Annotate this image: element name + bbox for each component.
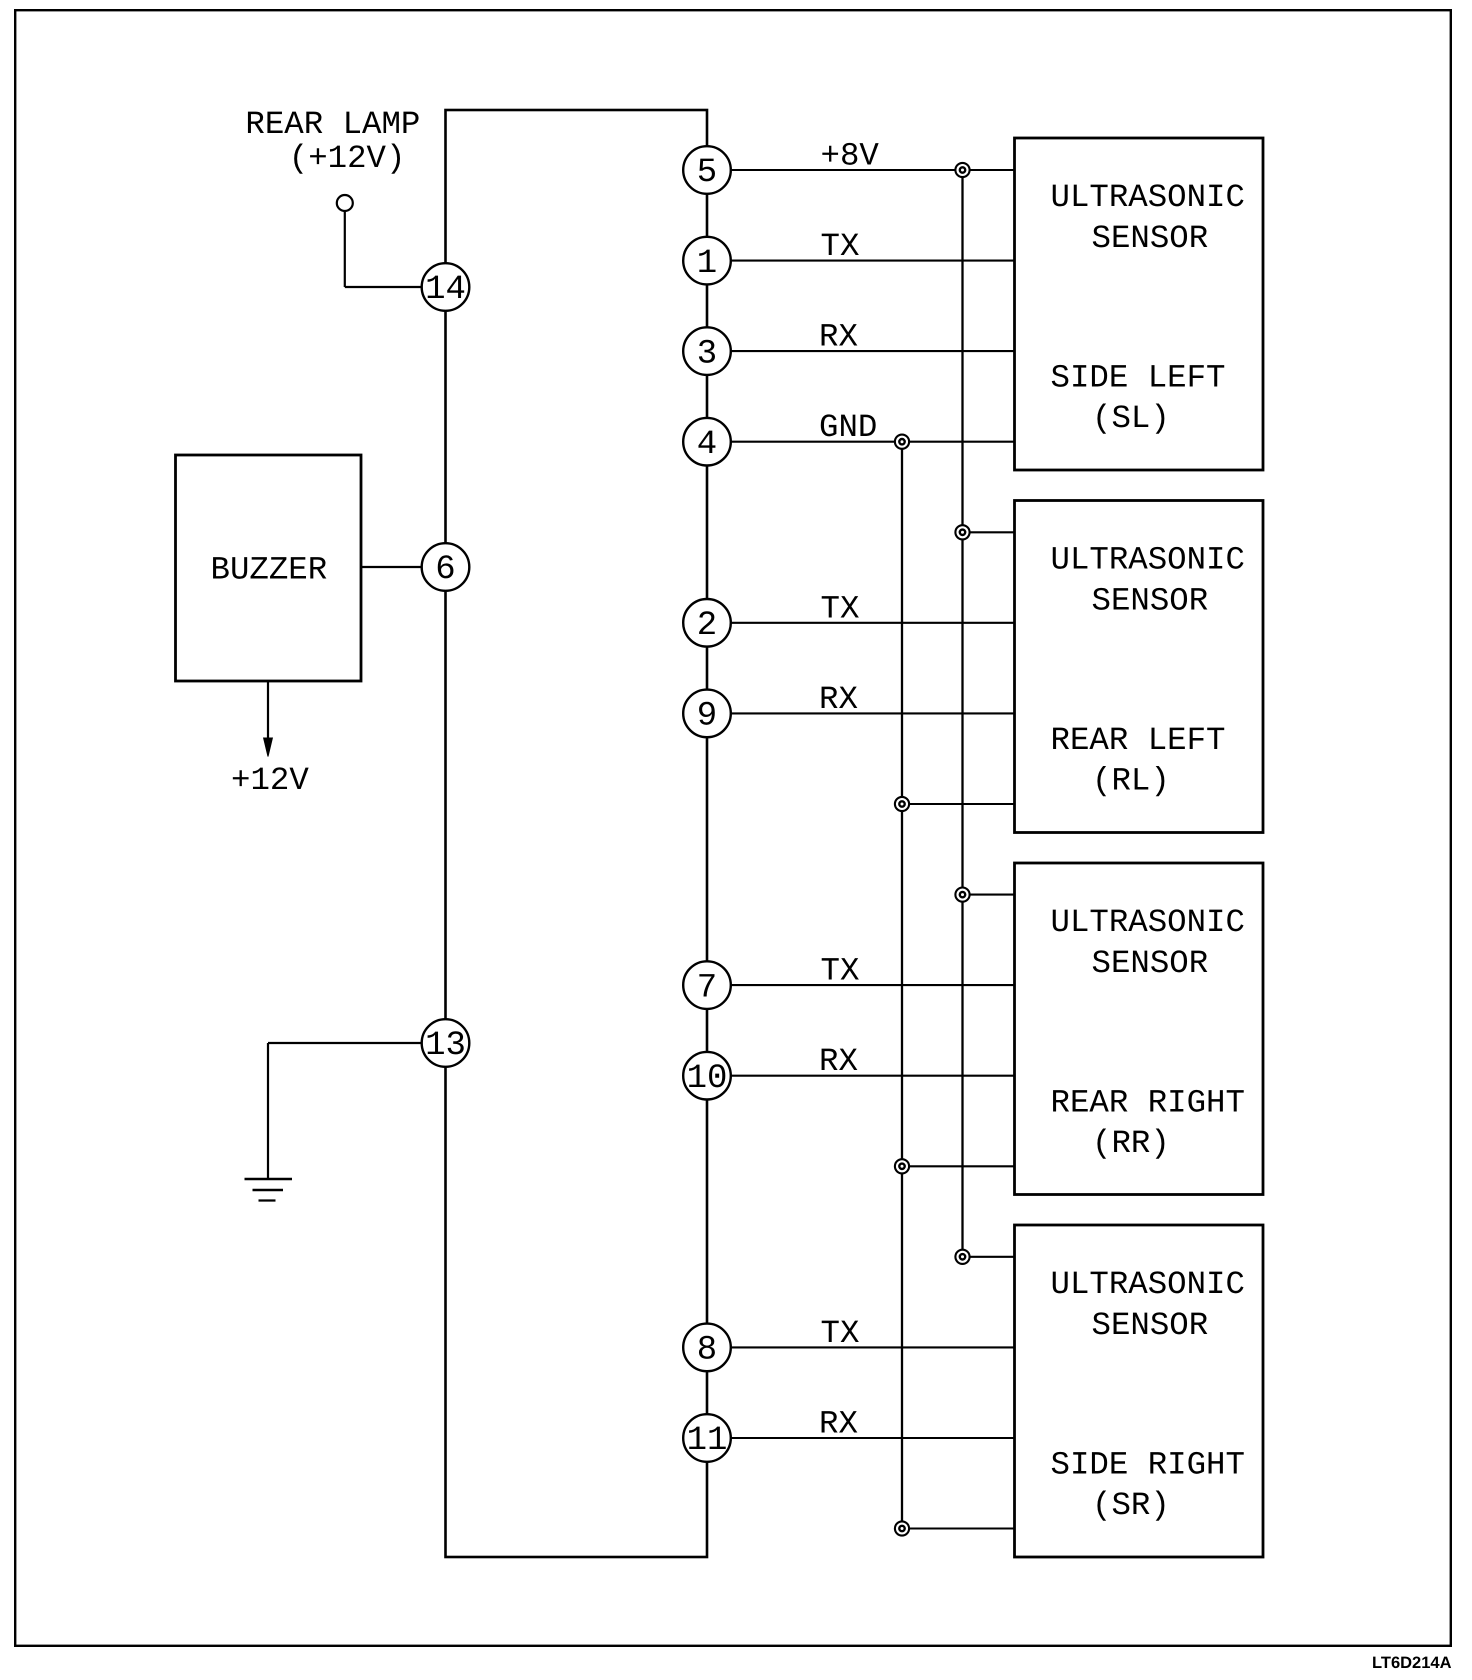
wire rear lamp vertical bbox=[344, 211, 346, 287]
svg-text:ULTRASONIC: ULTRASONIC bbox=[1051, 1266, 1245, 1303]
ground symbol bbox=[245, 1179, 293, 1201]
connector pin 9 bbox=[683, 690, 731, 738]
svg-text:RX: RX bbox=[819, 319, 858, 356]
wire +8V bus vertical bbox=[961, 170, 963, 1257]
ultrasonic sensor RL bbox=[1015, 501, 1264, 833]
svg-text:1: 1 bbox=[697, 245, 717, 283]
svg-text:LT6D214A: LT6D214A bbox=[1372, 1654, 1452, 1672]
wire GND pin4 to sensor SL bbox=[707, 441, 1015, 443]
controller connector outline bbox=[446, 110, 708, 1557]
connector pin 14 bbox=[422, 263, 470, 311]
wire buzzer +12V lead bbox=[267, 681, 269, 749]
svg-text:SENSOR: SENSOR bbox=[1092, 583, 1209, 620]
wire +8V bus to sensor RL bbox=[963, 531, 1015, 533]
ultrasonic sensor RR bbox=[1015, 863, 1264, 1195]
svg-text:ULTRASONIC: ULTRASONIC bbox=[1051, 179, 1245, 216]
svg-text:RX: RX bbox=[819, 1043, 858, 1080]
svg-text:BUZZER: BUZZER bbox=[211, 552, 328, 589]
wire RX to sensor RL bbox=[707, 712, 1015, 714]
svg-text:8: 8 bbox=[697, 1332, 717, 1370]
svg-text:9: 9 bbox=[697, 698, 717, 736]
wire RX to sensor SR bbox=[707, 1437, 1015, 1439]
svg-text:REAR LAMP: REAR LAMP bbox=[245, 106, 420, 143]
svg-text:TX: TX bbox=[821, 1315, 860, 1352]
wire GND bus to sensor SR bbox=[902, 1527, 1015, 1529]
svg-text:REAR RIGHT: REAR RIGHT bbox=[1051, 1085, 1245, 1122]
connector pin 1 bbox=[683, 237, 731, 285]
wire TX to sensor RR bbox=[707, 984, 1015, 986]
svg-text:RX: RX bbox=[819, 1406, 858, 1443]
svg-text:REAR LEFT: REAR LEFT bbox=[1051, 722, 1226, 759]
wire GND bus vertical bbox=[901, 442, 903, 1529]
svg-text:(RL): (RL) bbox=[1092, 763, 1170, 800]
svg-text:13: 13 bbox=[425, 1027, 466, 1065]
svg-text:TX: TX bbox=[821, 228, 860, 265]
junction GND/SR bbox=[895, 1521, 909, 1535]
svg-text:6: 6 bbox=[435, 551, 455, 589]
svg-text:11: 11 bbox=[687, 1422, 728, 1460]
junction +8V/RL bbox=[955, 525, 969, 539]
svg-text:+12V: +12V bbox=[231, 762, 309, 799]
svg-text:TX: TX bbox=[821, 953, 860, 990]
svg-text:SIDE LEFT: SIDE LEFT bbox=[1051, 360, 1226, 397]
arrow +12V bbox=[264, 738, 273, 757]
svg-text:SIDE RIGHT: SIDE RIGHT bbox=[1051, 1447, 1245, 1484]
svg-text:SENSOR: SENSOR bbox=[1092, 1307, 1209, 1344]
wire pin 13 to ground horizontal bbox=[268, 1042, 446, 1044]
wire TX to sensor SR bbox=[707, 1346, 1015, 1348]
svg-text:7: 7 bbox=[697, 969, 717, 1007]
junction +8V/RR bbox=[955, 888, 969, 902]
svg-text:(+12V): (+12V) bbox=[289, 140, 406, 177]
wire rear lamp to pin 14 bbox=[345, 286, 446, 288]
svg-text:5: 5 bbox=[697, 154, 717, 192]
junction GND/RL bbox=[895, 797, 909, 811]
connector pin 13 bbox=[422, 1019, 470, 1067]
connector pin 3 bbox=[683, 327, 731, 375]
connector pin 10 bbox=[683, 1052, 731, 1100]
connector pin 8 bbox=[683, 1324, 731, 1372]
junction GND/RR bbox=[895, 1159, 909, 1173]
svg-text:14: 14 bbox=[425, 271, 466, 309]
connector pin 11 bbox=[683, 1414, 731, 1462]
svg-text:3: 3 bbox=[697, 335, 717, 373]
svg-text:+8V: +8V bbox=[821, 138, 880, 175]
wire TX to sensor RL bbox=[707, 622, 1015, 624]
junction +8V/SL bbox=[955, 163, 969, 177]
svg-text:(RR): (RR) bbox=[1092, 1125, 1170, 1162]
wire RX to sensor RR bbox=[707, 1075, 1015, 1077]
connector pin 2 bbox=[683, 599, 731, 647]
svg-text:RX: RX bbox=[819, 681, 858, 718]
junction GND/SL bbox=[895, 435, 909, 449]
ultrasonic sensor SL bbox=[1015, 138, 1264, 470]
svg-text:10: 10 bbox=[687, 1060, 728, 1098]
connector pin 5 bbox=[683, 146, 731, 194]
svg-text:(SR): (SR) bbox=[1092, 1487, 1170, 1524]
svg-text:ULTRASONIC: ULTRASONIC bbox=[1051, 542, 1245, 579]
wire RX to sensor SL bbox=[707, 350, 1015, 352]
rear lamp terminal bbox=[337, 195, 353, 211]
svg-text:4: 4 bbox=[697, 426, 717, 464]
connector pin 6 bbox=[422, 543, 470, 591]
svg-text:ULTRASONIC: ULTRASONIC bbox=[1051, 904, 1245, 941]
connector pin 4 bbox=[683, 418, 731, 466]
wire buzzer to pin 6 bbox=[361, 566, 446, 568]
junction +8V/SR bbox=[955, 1250, 969, 1264]
wire +8V bus to sensor RR bbox=[963, 894, 1015, 896]
svg-text:GND: GND bbox=[819, 409, 877, 446]
wire +8V pin5 to sensor SL bbox=[707, 169, 1015, 171]
wire +8V bus to sensor SR bbox=[963, 1256, 1015, 1258]
svg-text:2: 2 bbox=[697, 607, 717, 645]
svg-text:(SL): (SL) bbox=[1092, 400, 1170, 437]
wire GND bus to sensor RR bbox=[902, 1165, 1015, 1167]
svg-text:SENSOR: SENSOR bbox=[1092, 945, 1209, 982]
wire TX to sensor SL bbox=[707, 260, 1015, 262]
ultrasonic sensor SR bbox=[1015, 1225, 1264, 1557]
svg-text:SENSOR: SENSOR bbox=[1092, 220, 1209, 257]
connector pin 7 bbox=[683, 961, 731, 1009]
buzzer BZ1 bbox=[176, 455, 362, 681]
wire GND bus to sensor RL bbox=[902, 803, 1015, 805]
svg-text:TX: TX bbox=[821, 590, 860, 627]
wire pin 13 to ground vertical bbox=[267, 1043, 269, 1179]
